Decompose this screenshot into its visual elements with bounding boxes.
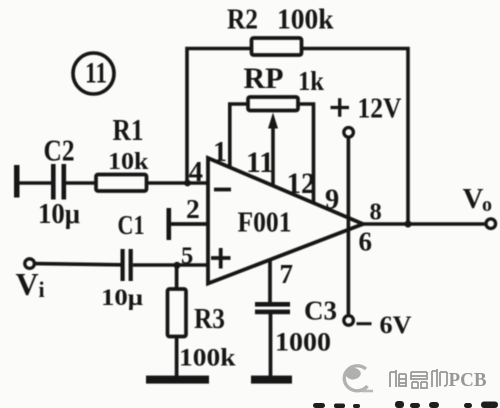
svg-text:F001: F001 xyxy=(238,207,292,239)
svg-text:6V: 6V xyxy=(380,312,412,339)
svg-text:C2: C2 xyxy=(44,133,75,168)
node: pin 5 junction xyxy=(174,262,181,269)
wire: R1 to pin 4 xyxy=(147,181,208,185)
node: feedback junction at pin 4 xyxy=(184,180,191,187)
capacitor C2 xyxy=(51,164,66,200)
wire: Vi to input capacitor xyxy=(35,264,121,265)
input terminal bar xyxy=(14,165,20,198)
svg-text:6: 6 xyxy=(359,227,373,257)
wire: pin 7 down to C3 xyxy=(268,259,272,302)
wire: feedback node up and over to R2 xyxy=(187,49,252,184)
svg-text:100k: 100k xyxy=(179,345,236,372)
svg-text:7: 7 xyxy=(280,259,294,289)
watermark text xyxy=(390,369,487,391)
wire: input bar to C2 xyxy=(20,181,52,185)
svg-text:1: 1 xyxy=(213,137,227,168)
svg-text:V: V xyxy=(16,266,39,302)
svg-text:R3: R3 xyxy=(194,304,225,335)
svg-text:9: 9 xyxy=(325,185,339,216)
svg-text:4: 4 xyxy=(189,156,204,188)
+12V label xyxy=(331,93,402,125)
wire: capacitor to pin 5 xyxy=(133,263,207,267)
svg-text:PCB: PCB xyxy=(449,369,487,391)
svg-text:RP: RP xyxy=(244,62,284,95)
op-amp plus sign xyxy=(211,248,231,269)
svg-text:2: 2 xyxy=(186,193,200,224)
svg-text:1000: 1000 xyxy=(275,328,331,357)
Vo label xyxy=(463,183,493,216)
RP wiper arrow to pin 11 xyxy=(268,113,278,187)
capacitor C3 xyxy=(255,302,290,314)
svg-text:12V: 12V xyxy=(358,93,402,125)
Vi label xyxy=(16,266,45,302)
resistor R3 xyxy=(168,289,187,337)
-6V label xyxy=(357,312,412,339)
svg-text:10μ: 10μ xyxy=(38,199,80,230)
svg-text:V: V xyxy=(463,183,484,215)
-6V terminal xyxy=(344,316,354,326)
svg-text:C3: C3 xyxy=(304,296,337,326)
op-amp minus sign xyxy=(214,188,231,192)
svg-text:12: 12 xyxy=(287,167,316,200)
wire: junction down to R3 xyxy=(175,265,179,289)
resistor R1 xyxy=(96,175,147,192)
svg-text:R1: R1 xyxy=(113,112,144,147)
wire: supply line down through pin 9 / pin 6 xyxy=(347,137,351,315)
watermark logo xyxy=(344,366,373,391)
bottom cut-off text fragments xyxy=(313,401,498,408)
wire: C1 plate to pin 2 xyxy=(171,222,207,226)
svg-text:o: o xyxy=(482,194,492,216)
svg-text:R2: R2 xyxy=(227,4,258,36)
svg-text:C1: C1 xyxy=(118,210,145,240)
svg-text:11: 11 xyxy=(246,146,274,179)
node: output junction xyxy=(404,220,411,227)
svg-text:1k: 1k xyxy=(298,66,324,96)
wire: R2 right to output node xyxy=(302,49,409,225)
svg-text:10k: 10k xyxy=(108,149,149,175)
input terminal Vi xyxy=(25,259,35,269)
svg-text:11: 11 xyxy=(85,57,107,90)
svg-text:100k: 100k xyxy=(277,4,334,36)
figure number circle 11 xyxy=(73,53,114,94)
ground (R3) xyxy=(146,376,209,384)
wire: op-amp output to Vo terminal xyxy=(363,222,486,226)
potentiometer RP xyxy=(248,97,298,111)
wire: C2 to R1 xyxy=(66,181,96,185)
+12V terminal xyxy=(344,128,354,138)
op-amp U1 F001 xyxy=(208,158,363,284)
wire: RP right down to pin 12 xyxy=(298,104,314,204)
wire: R3 to ground xyxy=(175,337,179,377)
capacitor C1 plate at pin 2 xyxy=(167,208,172,240)
wire: pin 1 up to RP left xyxy=(230,104,248,168)
svg-text:i: i xyxy=(39,277,45,302)
wire: C3 to ground xyxy=(269,314,273,376)
resistor R2 xyxy=(252,38,302,55)
svg-text:8: 8 xyxy=(370,199,382,226)
svg-text:10μ: 10μ xyxy=(101,285,143,310)
ground (C3) xyxy=(251,376,292,384)
output terminal Vo xyxy=(486,219,496,229)
input capacitor C1 (10u) xyxy=(121,249,133,281)
